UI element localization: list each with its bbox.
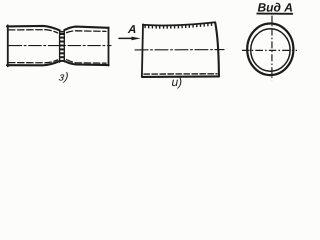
wire right edge (bowed)	[215, 23, 219, 77]
hidden line bottom left (dashed)	[9, 60, 58, 63]
wire right end edge	[108, 27, 110, 65]
title underline	[257, 13, 294, 15]
svg-text:з): з)	[57, 72, 69, 84]
view arrow A shaft	[119, 37, 133, 39]
svg-text:А: А	[127, 24, 137, 36]
crimp band left rail	[59, 30, 61, 62]
serration ticks	[145, 23, 211, 29]
wire left end edge	[7, 25, 9, 66]
outer ring	[247, 24, 293, 76]
wire bottom edge	[142, 75, 219, 78]
wire bottom outline left pipe	[7, 61, 60, 65]
horizontal centerline	[242, 49, 297, 51]
hidden line top left (dashed)	[9, 30, 58, 33]
figure i: cylinder with serrated edge, middle	[119, 22, 224, 77]
hidden line bottom right (dashed)	[67, 60, 106, 64]
centerline (dash-dot)	[9, 45, 111, 47]
inner ring	[251, 29, 290, 71]
svg-text:и): и)	[172, 75, 183, 89]
figure z: crimp-jointed pipe, left	[7, 25, 111, 66]
wire left edge	[142, 24, 143, 76]
view arrow A head	[132, 37, 141, 41]
wire top outline right pipe	[64, 27, 108, 31]
svg-text:Вид А: Вид А	[258, 1, 293, 15]
crimp band right rail	[63, 30, 65, 62]
wire top outline left pipe	[7, 26, 60, 30]
hidden line above bottom (dashed)	[144, 73, 217, 75]
centerline (dash-dot)	[135, 49, 224, 51]
vertical centerline	[271, 16, 273, 81]
crimp band rungs	[59, 31, 65, 62]
hidden line top right (dashed)	[67, 31, 106, 33]
wire serrated top edge	[143, 22, 215, 25]
wire bottom outline right pipe	[64, 61, 108, 65]
